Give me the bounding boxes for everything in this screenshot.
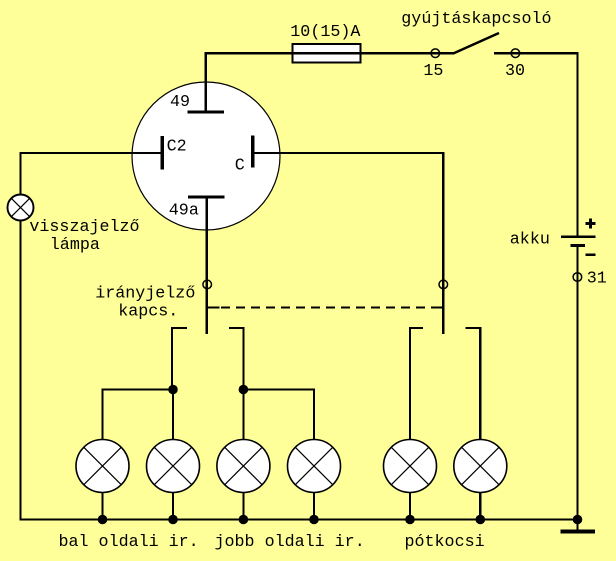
bus junction dot 1: [98, 515, 108, 525]
bus junction dot 2: [168, 515, 178, 525]
wire lamp L3 to bus: [242, 492, 244, 520]
wire lamp L2 to bus: [172, 492, 174, 520]
svg-text:visszajelző: visszajelző: [29, 218, 139, 237]
wire down to lamp L3: [242, 390, 244, 441]
lamp L5: [384, 440, 437, 493]
flasher relay body (circle): [132, 82, 280, 230]
lamp L4: [288, 440, 341, 493]
ignition switch blade: [453, 33, 499, 54]
junction dot right branch: [239, 385, 249, 395]
wire: battery - down to bottom bus: [576, 245, 578, 519]
svg-text:irányjelző: irányjelző: [95, 285, 195, 304]
svg-text:lámpa: lámpa: [50, 236, 100, 255]
terminal 15 ring: [431, 49, 440, 58]
svg-text:C2: C2: [167, 137, 187, 156]
fuse 10(15)A: [293, 44, 361, 62]
dashed link between selector blades: [221, 306, 434, 308]
wire lamp L5 to bus: [409, 492, 411, 520]
wire: right side down to battery +: [576, 52, 578, 235]
terminal 31 ring: [573, 273, 582, 282]
right switch: right fixed contact bracket: [466, 328, 481, 440]
bus junction dot 6: [476, 515, 486, 525]
branch wire right pair: [243, 388, 315, 390]
terminal 49a bar: [188, 196, 224, 199]
svg-text:30: 30: [505, 62, 525, 81]
wire: terminal 49 up to top corner: [205, 53, 207, 112]
wire: fuse to terminal 15: [361, 52, 454, 54]
svg-text:kapcs.: kapcs.: [118, 303, 178, 322]
wire: C right to corner: [255, 152, 445, 154]
svg-text:pótkocsi: pótkocsi: [405, 533, 485, 552]
left switch: right fixed contact bracket: [229, 328, 243, 390]
branch wire left pair: [101, 388, 173, 390]
indicator pilot lamp (visszajelzo lampa): [8, 195, 34, 221]
right blade tick: [434, 306, 443, 308]
wire down to lamp L1: [101, 388, 103, 440]
lamp L1: [76, 440, 129, 493]
wire: top horizontal to fuse: [205, 52, 294, 54]
wire lamp L1 to bus: [101, 492, 103, 520]
left selector ring: [203, 280, 212, 289]
junction dot left branch: [168, 385, 178, 395]
lamp L3: [217, 440, 270, 493]
svg-text:akku: akku: [510, 230, 550, 249]
lamp L2: [147, 440, 200, 493]
svg-text:C: C: [235, 157, 245, 176]
bus junction dot 5: [405, 515, 415, 525]
bus junction dot right end: [573, 515, 583, 525]
wire down to lamp L2: [172, 390, 174, 441]
terminal 30 ring: [511, 49, 520, 58]
svg-text:gyújtáskapcsoló: gyújtáskapcsoló: [401, 10, 551, 29]
label visszajelzo lampa: [29, 218, 139, 255]
terminal C2 bar: [161, 136, 165, 170]
wire: C2 left to corner: [19, 152, 160, 154]
terminal C bar: [251, 136, 255, 168]
battery minus sign: [586, 253, 596, 256]
battery akku: [561, 237, 596, 246]
svg-text:jobb oldali ir.: jobb oldali ir.: [215, 533, 365, 552]
svg-text:49a: 49a: [169, 201, 199, 220]
svg-text:49: 49: [170, 93, 190, 112]
bus junction dot 4: [309, 515, 319, 525]
bus junction dot 3: [239, 515, 249, 525]
lamp L6: [454, 440, 507, 493]
terminal 49 bar: [187, 111, 224, 114]
wire lamp L6 to bus: [479, 492, 481, 520]
wire lamp L4 to bus: [313, 492, 315, 520]
bottom ground bus wire: [19, 518, 578, 520]
wire: right down to right selector contact: [442, 152, 444, 334]
left blade tick: [207, 306, 220, 308]
wire: left side down to bottom bus: [19, 152, 21, 520]
wire: terminal 30 to right corner: [494, 52, 579, 54]
right selector ring: [439, 280, 448, 289]
svg-text:31: 31: [587, 270, 607, 289]
svg-text:15: 15: [423, 62, 443, 81]
chassis ground bar: [561, 530, 596, 534]
wire down to lamp L4: [313, 388, 315, 440]
right switch: left fixed contact bracket: [410, 328, 423, 440]
chassis ground stub: [576, 520, 578, 530]
battery plus sign: [586, 219, 596, 229]
svg-text:bal oldali ir.: bal oldali ir.: [59, 533, 199, 552]
svg-text:10(15)A: 10(15)A: [290, 23, 360, 42]
label iranyjelzo kapcs.: [95, 285, 195, 322]
left switch: left fixed contact bracket: [172, 328, 187, 390]
wire: 49a down to left selector contact (blade): [206, 197, 208, 334]
